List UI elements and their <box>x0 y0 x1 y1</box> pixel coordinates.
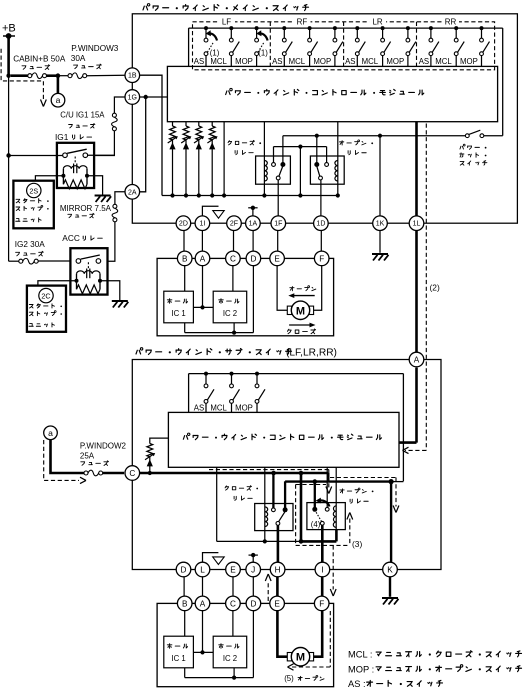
relay open (main) <box>310 122 344 198</box>
svg-text:(1): (1) <box>258 48 268 57</box>
svg-text:LR: LR <box>372 17 382 26</box>
unit 2S start-stop unit <box>13 181 53 229</box>
label close relay (sub) <box>225 486 258 501</box>
label group RR <box>442 17 459 27</box>
svg-text:MCL: MCL <box>362 57 379 66</box>
dashed switch-bank boundary <box>193 22 495 70</box>
label (5) open <box>284 674 324 683</box>
svg-text:MIRROR 7.5A: MIRROR 7.5A <box>60 204 112 213</box>
switch LR-MCL <box>381 26 391 66</box>
switch RR-MOP <box>480 26 490 66</box>
svg-text:P.WINDOW2: P.WINDOW2 <box>80 442 127 451</box>
svg-text:M: M <box>296 305 305 317</box>
wire: B to IC1 <box>184 266 186 292</box>
node a (upper) <box>51 73 65 107</box>
pin E (lower unit) <box>270 596 285 611</box>
label open relay (main) <box>340 140 374 155</box>
svg-text:MCL: MCL <box>210 404 227 413</box>
svg-text:IC 1: IC 1 <box>171 309 185 318</box>
ground (ACC relay coil) <box>112 301 129 308</box>
sub switch MCL <box>230 372 240 413</box>
svg-text:MCL: MCL <box>289 57 306 66</box>
wire: pin to motor unit x=233 <box>233 231 235 252</box>
power cut switch <box>465 130 502 137</box>
svg-text:A: A <box>414 356 420 365</box>
dashed path to close relay contact <box>209 470 332 494</box>
switch LF-MOP <box>255 26 265 66</box>
dashed path (5) to motor <box>288 611 331 670</box>
switch LF-AS <box>204 26 214 66</box>
wire: 1F to close relay <box>277 180 279 216</box>
svg-text:MOP :: MOP : <box>348 664 374 674</box>
svg-text:MOP: MOP <box>313 57 331 66</box>
pin 1I <box>195 216 210 231</box>
svg-text:L: L <box>200 566 205 575</box>
fuse CABIN+B 50A <box>11 73 58 79</box>
svg-text:E: E <box>230 566 236 575</box>
svg-text:MOP: MOP <box>235 404 253 413</box>
terminal cap above 1A <box>248 206 257 216</box>
label open relay (sub) <box>340 488 374 503</box>
label P.WINDOW2 25A fuse <box>80 442 127 466</box>
pin F (upper unit) <box>314 251 329 266</box>
control module (main) <box>167 66 497 121</box>
wire: relay NC/ground line (sub) <box>285 479 403 562</box>
wire: relay NC line to power cut switch <box>283 134 466 138</box>
switch RR-AS <box>429 26 439 66</box>
svg-text:1I: 1I <box>199 221 205 228</box>
labels AS/MCL/MOP (LR) <box>345 57 404 66</box>
label power cut switch <box>460 144 487 165</box>
wire: IG1 contact to fuse <box>88 154 115 156</box>
ground symbol above 1I <box>202 206 224 218</box>
pin D (lower unit) <box>246 596 261 611</box>
wire: A to ICs (lower) <box>193 611 213 655</box>
pin 1B <box>125 68 140 83</box>
wire: ACC coil to 2C unit <box>38 281 77 286</box>
svg-text:(3): (3) <box>352 539 362 549</box>
wire: C heavy feed line <box>140 471 329 482</box>
wire: J to D <box>252 577 254 596</box>
svg-text:C: C <box>230 254 236 263</box>
svg-text:M: M <box>296 652 305 664</box>
wire: switch feed bus <box>189 28 503 136</box>
wire: 1L heavy power wire <box>415 122 418 354</box>
fuse P.WINDOW2 25A <box>51 440 125 476</box>
wire: F to motor (lower heavy) <box>314 611 323 657</box>
pin D (upper unit) <box>246 251 261 266</box>
pin K (sub bottom) <box>383 562 398 577</box>
dashed path (3) down to F <box>330 545 336 596</box>
sub switch assembly box <box>132 360 441 570</box>
pin 2F <box>227 216 242 231</box>
label ACC relay <box>62 233 102 243</box>
switch LR-AS <box>355 26 365 66</box>
pin C <box>125 466 140 481</box>
svg-text:30A: 30A <box>71 54 86 63</box>
title: power window main switch <box>143 4 308 11</box>
svg-text:P.WINDOW3: P.WINDOW3 <box>71 44 119 53</box>
wire: close relay to H <box>277 525 280 562</box>
labels AS/MCL/MOP (RF) <box>272 57 331 66</box>
svg-text:AS: AS <box>345 57 355 66</box>
svg-text:I: I <box>321 566 323 575</box>
wire: 1K ground wire <box>379 136 381 253</box>
pin L (sub bottom) <box>195 562 210 577</box>
pin 1K <box>373 216 388 231</box>
pin 2A <box>125 185 140 200</box>
wire: internal power bus <box>162 195 338 197</box>
svg-text:1L: 1L <box>413 221 421 228</box>
svg-text:MCL: MCL <box>435 57 452 66</box>
motor M (front window) <box>287 301 313 319</box>
wire: C to IC2 <box>232 266 234 292</box>
svg-text:CABIN+B 50A: CABIN+B 50A <box>13 54 66 63</box>
pin 1G <box>125 90 140 105</box>
battery +B terminal <box>2 23 16 39</box>
svg-text:K: K <box>387 566 393 575</box>
pin A (lower unit) <box>195 596 210 611</box>
wire: D ground return <box>185 266 254 335</box>
svg-text:H: H <box>275 566 281 575</box>
labels AS/MCL/MOP (sub) <box>194 404 253 413</box>
label group RF <box>294 17 311 27</box>
hall IC 2 (lower) <box>213 636 247 668</box>
pin F (lower unit) <box>314 596 329 611</box>
svg-text:AS: AS <box>194 57 204 66</box>
wire: open relay to I <box>321 525 324 562</box>
wire: A heavy wire into sub module <box>399 368 417 443</box>
svg-text:E: E <box>274 254 280 263</box>
svg-text:A: A <box>200 599 206 608</box>
svg-text:IC 2: IC 2 <box>223 654 237 663</box>
wire: K to ground <box>389 577 391 597</box>
svg-text:B: B <box>182 599 188 608</box>
label (2) <box>430 283 440 293</box>
switch RF-MCL <box>308 26 318 66</box>
node a (lower) <box>44 426 58 440</box>
wire: module feed to bus <box>222 122 226 198</box>
pin 1D <box>314 216 329 231</box>
hall IC 2 (upper) <box>213 291 247 323</box>
legend MCL <box>348 650 521 660</box>
wire: 1B feed into module area <box>140 75 162 195</box>
svg-text:AS: AS <box>272 57 282 66</box>
labels AS/MCL/MOP (LF) <box>194 57 253 66</box>
wire: sub switch bus <box>189 374 404 482</box>
wire: relay common line <box>274 145 327 198</box>
svg-text:1F: 1F <box>274 221 282 228</box>
label group LR <box>369 17 386 27</box>
wire: pin to motor unit x=253 <box>252 231 254 252</box>
switch RR-MCL <box>454 26 464 66</box>
svg-text:1B: 1B <box>128 73 137 80</box>
wire: D ground return (lower) <box>185 611 254 680</box>
svg-text:C/U IG1 15A: C/U IG1 15A <box>60 110 105 119</box>
wire: 1G to module <box>140 95 168 99</box>
hall IC 1 (lower) <box>164 636 194 668</box>
svg-text:RR: RR <box>445 17 457 26</box>
pin 1A <box>246 216 261 231</box>
svg-text:A: A <box>200 254 206 263</box>
pin B (lower unit) <box>177 596 192 611</box>
svg-text:AS :: AS : <box>348 679 366 689</box>
pin I (sub bottom) <box>315 562 330 577</box>
svg-text:MCL: MCL <box>210 57 227 66</box>
main switch assembly box <box>132 14 517 223</box>
svg-text:(1): (1) <box>210 48 220 57</box>
label group LF <box>218 17 235 27</box>
svg-text:MOP: MOP <box>386 57 404 66</box>
switch LR-MOP <box>406 26 416 66</box>
svg-text:B: B <box>182 254 188 263</box>
window motor unit (rear) box <box>157 603 334 686</box>
open direction arrow (upper) <box>288 286 316 298</box>
svg-text:MCL :: MCL : <box>348 650 372 660</box>
svg-text:AS: AS <box>419 57 429 66</box>
pin D (sub bottom) <box>176 562 191 577</box>
relay ACC <box>70 248 107 294</box>
control module (sub) <box>168 412 399 467</box>
variable resistor with arrow at x=212 <box>207 122 217 198</box>
svg-text:a: a <box>48 428 53 438</box>
svg-text:ACC: ACC <box>62 233 80 243</box>
close direction arrow (upper) <box>287 323 315 334</box>
terminal cap above J <box>249 553 258 562</box>
legend AS <box>348 679 442 689</box>
switch RF-MOP <box>333 26 343 66</box>
svg-text:+B: +B <box>2 23 16 35</box>
svg-text:E: E <box>274 599 280 608</box>
relay close (sub) <box>255 467 293 541</box>
pin A (sub top) <box>409 352 424 367</box>
svg-text:RF: RF <box>297 17 308 26</box>
svg-text:1K: 1K <box>376 221 385 228</box>
wire: E to C <box>232 577 234 596</box>
svg-text:IG1: IG1 <box>55 132 69 142</box>
fuse IG2 30A <box>9 258 77 264</box>
label IG2 30A fuse <box>15 240 46 256</box>
svg-text:1A: 1A <box>249 221 258 228</box>
title: power window sub switch <box>136 347 337 358</box>
dashed signal (2) line <box>403 124 427 454</box>
wire: coil return line <box>217 539 304 544</box>
wire: IG1 coil to 2S unit <box>35 176 63 181</box>
svg-text:F: F <box>319 254 324 263</box>
dashed flow arrow up between H and E <box>265 574 271 601</box>
wire: A to ICs <box>193 266 213 310</box>
wire: 1D to open relay <box>320 180 322 216</box>
svg-text:C: C <box>129 469 135 478</box>
variable resistor with arrow at x=186 <box>181 122 191 198</box>
switch RF-AS <box>282 26 292 66</box>
relay close (main) <box>256 122 291 198</box>
wire: 1G to C/U IG1 fuse <box>114 97 125 113</box>
pin 1F <box>271 216 286 231</box>
wire: pin to motor unit x=184 <box>183 231 185 252</box>
sub switch AS <box>204 372 214 413</box>
svg-text:MOP: MOP <box>235 57 253 66</box>
svg-text:1D: 1D <box>316 221 325 228</box>
svg-text:(5): (5) <box>284 674 294 683</box>
switch LF-MCL <box>229 26 239 66</box>
wire: E to motor <box>277 266 287 311</box>
svg-text:(2): (2) <box>430 283 440 293</box>
svg-text:(4): (4) <box>311 520 321 529</box>
relay IG1 <box>6 143 94 189</box>
wire: 2A to MIRROR fuse <box>115 192 125 205</box>
sub switch MOP <box>255 372 265 413</box>
svg-text:2S: 2S <box>29 186 38 195</box>
motor M (rear window) <box>287 648 313 666</box>
svg-text:MOP: MOP <box>460 57 478 66</box>
dashed harness boundary top-left <box>1 49 46 107</box>
label IG1 relay <box>55 132 92 142</box>
svg-text:(LF,LR,RR): (LF,LR,RR) <box>286 347 337 358</box>
wire: C to IC2 (lower) <box>232 611 234 637</box>
svg-text:2D: 2D <box>179 221 188 228</box>
variable resistor with arrow at x=172 <box>168 122 178 198</box>
dashed path to open relay coil <box>330 478 399 513</box>
pin 2D <box>176 216 191 231</box>
svg-text:IC 2: IC 2 <box>223 309 237 318</box>
wire: C to open coil <box>301 473 336 541</box>
svg-text:2C: 2C <box>41 291 50 300</box>
wire: B to IC1 (lower) <box>184 611 186 637</box>
pin 1L <box>409 216 424 231</box>
svg-text:C: C <box>230 599 236 608</box>
ground (K) <box>382 598 399 605</box>
wire: F to motor <box>314 266 322 311</box>
label C/U IG1 15A fuse <box>60 110 105 128</box>
ground symbol above L <box>203 553 225 565</box>
pin A (upper unit) <box>195 251 210 266</box>
fuse P.WINDOW3 30A <box>58 73 125 79</box>
wire: +B rail <box>6 36 10 261</box>
labels AS/MCL/MOP (RR) <box>419 57 478 66</box>
svg-text:LF: LF <box>222 17 231 26</box>
svg-text:IC 1: IC 1 <box>171 654 185 663</box>
unit 2C start-stop unit <box>27 286 66 332</box>
label (4) <box>311 520 321 529</box>
ground (IG1 relay coil) <box>95 196 112 203</box>
pin C (upper unit) <box>226 251 241 266</box>
label (3) <box>352 539 362 549</box>
svg-text:2A: 2A <box>128 189 137 196</box>
svg-text:1G: 1G <box>128 95 137 102</box>
wire: ACC coil to ground <box>100 281 120 300</box>
fuse C/U IG1 15A <box>87 113 117 155</box>
dashed harness arrow at a <box>44 440 86 484</box>
wire: E to motor (lower heavy) <box>277 611 287 657</box>
dashed loop (4) around open relay <box>296 485 353 546</box>
label MIRROR 7.5A fuse <box>60 204 112 218</box>
legend MOP <box>348 664 521 674</box>
pin B (upper unit) <box>177 251 192 266</box>
svg-text:AS: AS <box>194 404 204 413</box>
svg-text:F: F <box>319 599 324 608</box>
label P.WINDOW3 30A fuse <box>71 44 119 69</box>
window motor unit (front) box <box>157 258 334 335</box>
wire: 1G-2A jumper <box>140 97 146 192</box>
svg-text:2F: 2F <box>230 221 238 228</box>
wire: I to F (heavy) <box>321 577 324 596</box>
label close relay (main) <box>228 140 261 154</box>
wire: L to A <box>202 577 204 596</box>
variable resistor (sub) <box>145 438 168 475</box>
fuse MIRROR 7.5A <box>100 204 118 261</box>
relay open (sub) <box>307 467 345 529</box>
wire: module pin to coil-return <box>216 467 218 541</box>
hall IC 1 (upper) <box>164 291 194 323</box>
pin E (sub bottom) <box>226 562 241 577</box>
auto-switch arrow (1) LF-MOP <box>256 30 268 57</box>
svg-text:25A: 25A <box>80 451 95 460</box>
svg-text:D: D <box>181 566 187 575</box>
auto-switch arrow (1) LF-AS <box>206 30 220 57</box>
svg-text:D: D <box>250 254 256 263</box>
svg-text:D: D <box>250 599 256 608</box>
ground (1K) <box>372 254 389 261</box>
wire: pin to motor unit x=202 <box>201 231 203 252</box>
wire: 1F to E <box>277 231 279 252</box>
label CABIN+B 50A fuse <box>13 54 66 69</box>
pin E (upper unit) <box>270 251 285 266</box>
svg-text:IG2 30A: IG2 30A <box>15 240 46 249</box>
wire: H to E (heavy) <box>276 577 279 596</box>
wire: D to B <box>183 577 185 596</box>
pin C (lower unit) <box>226 596 241 611</box>
wire: 1D to F <box>320 231 322 252</box>
pin J (sub bottom) <box>246 562 261 577</box>
svg-text:J: J <box>251 566 255 575</box>
pin H (sub bottom) <box>270 562 285 577</box>
wire: IG1 coil to ground <box>87 176 103 195</box>
variable resistor with arrow at x=198 <box>194 122 204 198</box>
svg-text:a: a <box>56 95 61 105</box>
